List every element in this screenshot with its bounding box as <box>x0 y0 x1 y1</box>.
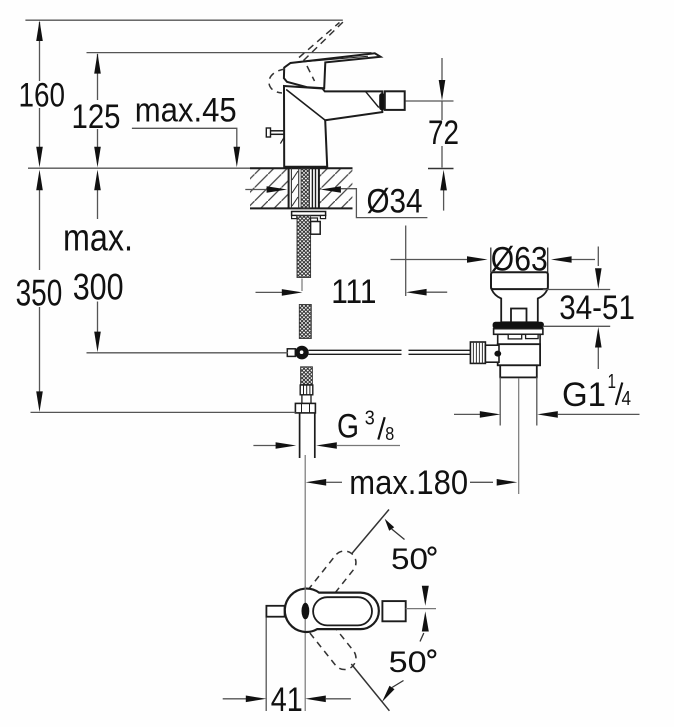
faucet centerline (long) <box>304 455 306 711</box>
svg-text:160: 160 <box>19 76 66 114</box>
centerline fragment in hose gap <box>301 279 303 292</box>
drain valve neck <box>492 289 548 322</box>
dim 34-51 reference lines <box>543 289 610 291</box>
aerator body <box>385 91 405 110</box>
dim max300 vertical line <box>97 190 99 333</box>
svg-text:max.45: max.45 <box>135 92 237 130</box>
mounting nut on stud <box>311 218 318 222</box>
flange tab right <box>320 216 325 219</box>
horizontal centerline right <box>406 608 436 610</box>
BOTTOM-VIEW-GROUP <box>223 510 436 719</box>
connection tube G3/8 <box>300 413 315 458</box>
handle inner stadium <box>313 597 372 625</box>
connection nut G3/8 <box>295 403 315 413</box>
dim 111 arrows <box>256 291 283 293</box>
arc fragment below <box>420 633 424 642</box>
41 extension line (spout stub edge) <box>265 612 267 711</box>
pop-up knob on body left <box>266 128 284 144</box>
rod coupling knurled nut <box>470 342 485 363</box>
flange underband <box>494 329 543 335</box>
dim 125 vertical line <box>97 54 99 147</box>
angle arc arrows at centerline (hourglass) <box>422 586 429 606</box>
dim G1 1/4 arrows <box>454 413 480 415</box>
deck top thin extension to left <box>28 167 250 169</box>
drain centerline <box>518 378 520 494</box>
dim Ø34 arrows at deck <box>245 189 266 191</box>
dim 72 vertical line <box>442 58 444 211</box>
lift pin <box>511 309 527 323</box>
overflow slot left <box>508 334 522 339</box>
dim 160 arrows <box>36 20 43 41</box>
svg-text:G: G <box>337 407 359 445</box>
spout stub (top view) <box>266 606 284 617</box>
svg-text:50: 50 <box>391 543 428 576</box>
svg-text:72: 72 <box>428 114 459 152</box>
lever handle solid <box>284 53 381 88</box>
collar lines <box>301 395 303 404</box>
centerline over handle <box>304 586 306 631</box>
aerator dark band <box>379 93 385 110</box>
dim 34-51 vertical line <box>597 247 599 370</box>
pop-up rod pivot ball <box>295 346 309 360</box>
svg-text:Ø63: Ø63 <box>491 241 548 279</box>
deck top line <box>250 167 353 169</box>
dim 160 vertical line <box>39 22 41 147</box>
dim max300 reference line (rod level) <box>87 352 289 354</box>
flex hose middle <box>299 305 311 339</box>
pop-up rod end piece <box>287 349 295 357</box>
drain valve cap <box>491 272 548 289</box>
svg-text:max.: max. <box>63 218 133 260</box>
svg-text:111: 111 <box>331 273 376 311</box>
dim max.180 arrows <box>306 479 327 486</box>
dim 350 bottom reference line <box>31 411 296 413</box>
phantom handle position lower (dashed, -50) <box>293 598 360 674</box>
dim 72 arrows <box>439 80 446 101</box>
deck bottom line <box>250 207 353 209</box>
SIDE-VIEW-GROUP <box>28 22 548 711</box>
dim 41 arrows <box>223 698 247 700</box>
lower 50 arc arrow at diagonal <box>382 686 395 702</box>
overflow slot right <box>526 334 539 338</box>
svg-text:1: 1 <box>608 371 617 393</box>
svg-text:8: 8 <box>385 424 394 444</box>
body/spout crease <box>286 90 325 121</box>
dim G 3/8 arrows <box>253 445 276 447</box>
max.45 leader underline <box>132 128 237 147</box>
dim 125 arrows <box>94 53 101 74</box>
lever end cap (top view) <box>382 601 405 621</box>
phantom lever (dashed, raised position) <box>269 22 343 93</box>
tailpipe extension lines <box>499 377 501 425</box>
ribbed fitting <box>300 385 313 395</box>
hinge pin dot <box>302 603 310 620</box>
lever blade underside line <box>291 56 369 63</box>
dim 350 arrows <box>36 170 43 191</box>
flange washer under deck <box>292 212 326 216</box>
faucet body <box>284 86 382 167</box>
reference line top (160 top) <box>25 19 342 21</box>
valve barrel <box>498 344 540 365</box>
handle outline (top view) <box>285 589 379 632</box>
svg-text:300: 300 <box>73 266 124 307</box>
svg-text:3: 3 <box>365 408 375 430</box>
shank pin double line <box>312 168 315 208</box>
50deg lower diagonal line <box>351 664 389 711</box>
50deg upper diagonal line <box>352 510 389 554</box>
dim 350 vertical line <box>39 190 41 393</box>
step ring <box>500 365 537 377</box>
rod coupling connector <box>485 345 499 362</box>
spout tip extension line <box>405 226 407 297</box>
deck hole right edge <box>318 168 320 208</box>
reference line 125 top <box>87 52 372 54</box>
dim 72 spout reference line <box>406 100 454 102</box>
svg-text:4: 4 <box>622 388 632 410</box>
pop-up horizontal rod <box>309 350 471 354</box>
flex hose upper <box>297 216 311 278</box>
max.45 leader arrow <box>234 147 241 168</box>
svg-text:Ø34: Ø34 <box>367 183 423 221</box>
deck top segment right (under 72 arrow) <box>428 168 454 170</box>
drain valve: dimension extension lines over cap <box>490 248 492 273</box>
svg-text:max.180: max.180 <box>349 464 468 502</box>
DIMENSIONS-GROUP <box>16 20 640 502</box>
upper 50 arc arrow at diagonal <box>385 519 395 531</box>
svg-text:G1: G1 <box>562 376 606 414</box>
slot band <box>498 334 540 344</box>
svg-text:125: 125 <box>72 98 121 136</box>
coupling set screw (black dot) <box>494 351 501 357</box>
dim Ø63 arrows <box>391 259 469 261</box>
threaded shank strip <box>301 168 310 208</box>
svg-text:50: 50 <box>389 646 427 679</box>
deck hole left edge <box>288 168 290 208</box>
flange tab left <box>292 216 297 219</box>
phantom handle position upper (dashed, +50) <box>293 546 360 622</box>
flex hose lower <box>301 367 313 385</box>
svg-text:34-51: 34-51 <box>559 289 635 327</box>
shank spacer strip <box>291 168 298 208</box>
mounting deck hatch left <box>250 169 289 208</box>
svg-text:350: 350 <box>16 273 63 314</box>
seat flange (black) <box>493 322 544 329</box>
Ø34 bent leader <box>341 189 428 218</box>
aerator diagonal <box>366 91 379 107</box>
dim 34-51 arrows <box>595 268 602 289</box>
mounting deck hatch right <box>319 169 352 208</box>
dim max300 arrows <box>94 170 101 191</box>
svg-text:41: 41 <box>271 681 303 719</box>
